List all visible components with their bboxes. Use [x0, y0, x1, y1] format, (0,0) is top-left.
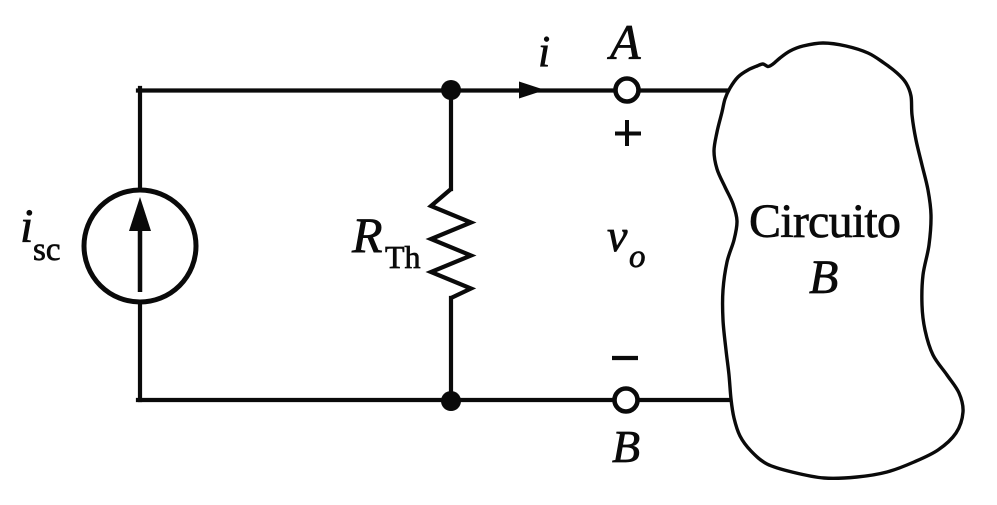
current source ISC [84, 190, 196, 302]
wire left vertical upper [138, 88, 142, 190]
junction dot top [441, 80, 461, 100]
svg-text:Circuito: Circuito [749, 195, 901, 248]
junction dot bottom [441, 391, 461, 411]
svg-text:i: i [20, 200, 33, 253]
plus sign [615, 120, 641, 146]
svg-text:B: B [809, 251, 838, 304]
svg-text:v: v [607, 210, 628, 261]
wire top horizontal (source to terminal A) [138, 88, 613, 92]
terminal B [615, 389, 638, 412]
svg-text:i: i [538, 27, 550, 76]
wire resistor branch upper [449, 90, 453, 189]
minus sign [612, 356, 638, 360]
wire resistor branch lower [449, 298, 453, 400]
circuit B blob outline [714, 43, 963, 478]
label v_o [607, 210, 646, 275]
wire top (terminal A to circuit B) [641, 88, 740, 92]
svg-text:R: R [351, 207, 383, 263]
current arrow i [519, 82, 545, 99]
terminal A [616, 79, 639, 102]
resistor RTh [431, 189, 471, 298]
svg-text:A: A [607, 14, 641, 70]
svg-text:o: o [629, 239, 646, 275]
label i_sc [20, 200, 61, 268]
svg-text:Th: Th [385, 239, 421, 275]
label R_Th [351, 207, 421, 275]
svg-text:B: B [612, 421, 640, 472]
wire bottom (terminal B to circuit B) [640, 398, 735, 402]
wire left vertical lower [138, 302, 142, 400]
svg-text:sc: sc [33, 232, 61, 268]
wire bottom horizontal (source to terminal B) [138, 398, 612, 402]
